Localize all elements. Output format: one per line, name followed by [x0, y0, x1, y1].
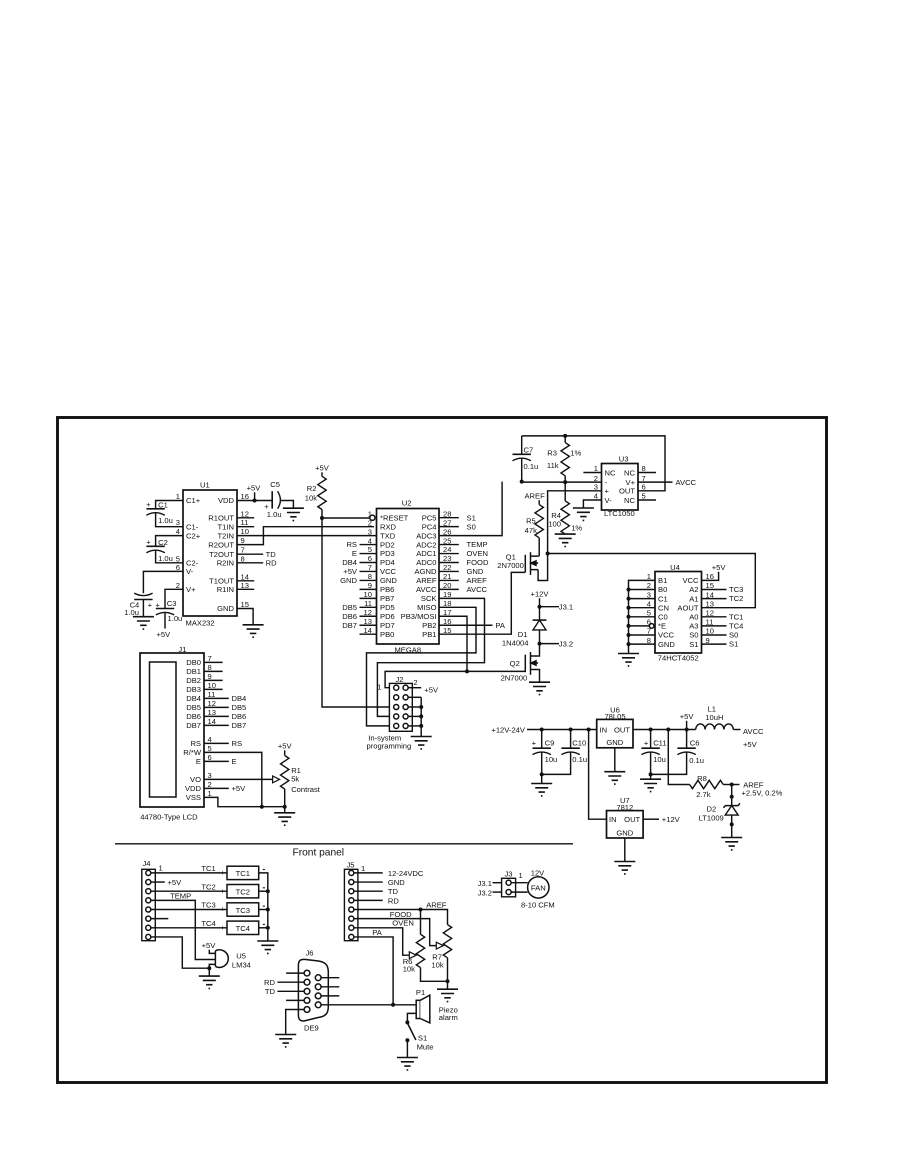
svg-text:ADC2: ADC2 [416, 540, 436, 549]
svg-text:C2: C2 [158, 538, 168, 547]
svg-text:D2: D2 [706, 805, 716, 814]
svg-text:+: + [146, 500, 151, 509]
U7 ground lead [624, 838, 626, 862]
ground at R4 [555, 534, 576, 546]
svg-text:DB7: DB7 [186, 721, 201, 730]
svg-text:3: 3 [176, 518, 180, 527]
wire T2IN to TXD [237, 535, 377, 537]
junction dot C10 [569, 728, 573, 732]
transistor Q2 2N7000 [501, 644, 540, 683]
svg-text:DE9: DE9 [304, 1024, 319, 1033]
svg-text:RD: RD [388, 896, 399, 905]
J1 VO wire to R1 wiper [204, 778, 278, 780]
svg-text:VDD: VDD [185, 784, 202, 793]
svg-text:R2OUT: R2OUT [208, 540, 234, 549]
svg-text:V+: V+ [626, 478, 636, 487]
switch S1 Mute [405, 1013, 433, 1057]
svg-text:2N7000: 2N7000 [497, 561, 524, 570]
svg-text:R/*W: R/*W [183, 748, 202, 757]
svg-text:C2+: C2+ [186, 531, 201, 540]
svg-text:+: + [644, 738, 649, 747]
svg-text:8: 8 [241, 554, 245, 563]
U1 R1OUT stub pin 12 [237, 517, 254, 519]
svg-text:10u: 10u [545, 755, 558, 764]
svg-text:12: 12 [241, 509, 249, 518]
potentiometer R7 10k [431, 925, 451, 982]
voltage regulator U7 7812 [589, 730, 644, 839]
svg-text:+: + [148, 601, 153, 610]
svg-text:MISO: MISO [417, 603, 437, 612]
svg-text:PB2: PB2 [422, 621, 436, 630]
junction dot J3.1 [538, 605, 542, 609]
svg-text:1.0u: 1.0u [124, 608, 139, 617]
svg-text:J3.2: J3.2 [478, 888, 492, 897]
svg-text:VCC: VCC [380, 567, 397, 576]
J1 VDD wire to +5V [204, 784, 246, 793]
wire PB1 to Q1 gate [439, 572, 525, 634]
capacitor C4 1.0u [124, 571, 183, 617]
U2 left wires with labels RS E DB4 +5V GND DB5 DB6 DB7 [340, 540, 376, 630]
svg-text:FAN: FAN [531, 883, 546, 892]
svg-text:TEMP: TEMP [467, 540, 488, 549]
junction dot reset net [320, 516, 324, 520]
resistor R2 10k [305, 464, 330, 519]
svg-text:+5V: +5V [232, 784, 247, 793]
svg-text:IN: IN [609, 815, 617, 824]
svg-text:VSS: VSS [186, 793, 201, 802]
wire SCK to ISP [377, 598, 484, 716]
svg-text:PD5: PD5 [380, 603, 395, 612]
svg-text:TC4: TC4 [201, 919, 215, 928]
svg-text:16: 16 [241, 492, 249, 501]
svg-text:1.0u: 1.0u [158, 554, 173, 563]
thermocouple TC4 box [227, 921, 259, 934]
capacitor C6 0.1u [651, 730, 704, 775]
U3 pin numbers [594, 464, 646, 501]
svg-text:TXD: TXD [380, 531, 396, 540]
U4 left bus wire to ground [629, 580, 656, 653]
ground at J6 [275, 1035, 296, 1047]
svg-text:Q2: Q2 [510, 659, 520, 668]
svg-text:LT1009: LT1009 [699, 814, 724, 823]
J6 TD wire [265, 987, 304, 996]
svg-text:alarm: alarm [439, 1013, 458, 1022]
svg-text:TC1: TC1 [201, 864, 215, 873]
svg-text:7812: 7812 [616, 803, 633, 812]
J1 DB4-DB7 wires with labels [204, 694, 246, 730]
junction dot R6 R7 ground [446, 979, 450, 983]
thermocouple wires TC1-TC4 from J4 [151, 864, 227, 932]
U2 *RESET inversion circle pin 1 [370, 515, 375, 520]
svg-text:DB4: DB4 [232, 694, 247, 703]
J5 OVEN wire pin7 [354, 919, 414, 956]
svg-text:PD4: PD4 [380, 558, 395, 567]
svg-text:J3: J3 [504, 870, 512, 879]
wire MOSI to ISP and Q2 gate [385, 616, 525, 687]
U1 pin numbers [176, 492, 249, 609]
svg-text:74HCT4052: 74HCT4052 [658, 653, 699, 662]
wire R2OUT to RXD [237, 527, 374, 545]
J6 right stubs [321, 978, 339, 996]
svg-text:2: 2 [176, 581, 180, 590]
svg-text:C10: C10 [572, 738, 586, 747]
capacitor C7 0.1u [513, 436, 539, 471]
svg-text:FOOD: FOOD [467, 558, 489, 567]
svg-text:DB4: DB4 [342, 558, 357, 567]
svg-text:C7: C7 [524, 445, 534, 454]
svg-text:AVCC: AVCC [676, 478, 697, 487]
svg-text:AREF: AREF [524, 491, 545, 500]
U1 R2IN wire and RD label [237, 559, 277, 568]
svg-text:+5V: +5V [168, 878, 183, 887]
svg-text:PB3/MOSI: PB3/MOSI [401, 612, 437, 621]
svg-text:S1: S1 [729, 640, 738, 649]
svg-text:J3.1: J3.1 [559, 602, 573, 611]
capacitor C9 10u [532, 730, 558, 775]
svg-text:C3: C3 [167, 599, 177, 608]
svg-text:NC: NC [624, 468, 635, 477]
svg-text:DB1: DB1 [186, 667, 201, 676]
junction dot piezo node [391, 1003, 395, 1007]
U2 right stubs with labels S1 S0 TEMP OVEN FOOD GND AREF AVCC [439, 513, 489, 594]
J4 pin2 +5V wire [151, 878, 182, 887]
svg-text:10k: 10k [403, 965, 415, 974]
svg-text:9: 9 [241, 536, 245, 545]
svg-text:AVCC: AVCC [467, 585, 488, 594]
U1 VDD wire to +5V [237, 484, 272, 501]
svg-text:LTC1050: LTC1050 [604, 509, 635, 518]
U3 pin1 NC stub [583, 472, 601, 474]
J4 pin4 TEMP wire to U5 [151, 892, 216, 960]
svg-text:OUT: OUT [624, 815, 640, 824]
svg-text:1: 1 [377, 682, 381, 691]
svg-text:+5V: +5V [743, 740, 758, 749]
svg-text:TC2: TC2 [201, 882, 215, 891]
svg-text:R8: R8 [697, 774, 707, 783]
ground at Q2 source [529, 682, 550, 694]
wire to J3.1 label [540, 602, 574, 611]
IC U4 74HCT4052 body [655, 563, 702, 662]
svg-text:GND: GND [616, 829, 633, 838]
voltage regulator U6 78L05 [597, 706, 633, 748]
svg-text:U3: U3 [619, 454, 629, 463]
svg-text:ADC1: ADC1 [416, 549, 436, 558]
svg-text:+5V: +5V [247, 484, 262, 493]
svg-text:10k: 10k [305, 493, 317, 502]
svg-text:V-: V- [186, 567, 194, 576]
label In-system programming [367, 734, 412, 751]
J2 pin2 wire to +5V label [408, 686, 439, 695]
svg-text:AREF: AREF [426, 900, 447, 909]
svg-text:DB4: DB4 [186, 694, 201, 703]
junction dot C9 [540, 728, 544, 732]
svg-text:DB6: DB6 [186, 712, 201, 721]
svg-text:T1IN: T1IN [218, 522, 234, 531]
capacitor C3 1.0u [155, 589, 183, 639]
svg-text:DB0: DB0 [186, 658, 201, 667]
svg-text:IN: IN [600, 725, 608, 734]
connector J5 [344, 860, 365, 940]
svg-text:P1: P1 [416, 988, 425, 997]
U4 VCC pin16 wire to +5V [702, 563, 727, 580]
svg-text:+12V: +12V [662, 815, 681, 824]
svg-text:GND: GND [658, 640, 675, 649]
U2 pin numbers [364, 509, 452, 634]
U3 V+ wire to AVCC label [638, 478, 697, 487]
svg-text:12V: 12V [531, 868, 545, 877]
svg-text:0.1u: 0.1u [524, 462, 539, 471]
svg-text:AREF: AREF [467, 576, 488, 585]
J5 AREF wire pin5 [354, 900, 447, 909]
svg-text:C9: C9 [545, 738, 555, 747]
svg-text:PC4: PC4 [422, 522, 437, 531]
svg-text:1.0u: 1.0u [267, 510, 282, 519]
svg-text:TD: TD [265, 987, 276, 996]
U2 left stubs pins 9 10 14 [360, 589, 377, 634]
svg-text:OUT: OUT [614, 725, 630, 734]
svg-text:+: + [220, 905, 225, 914]
svg-text:PD6: PD6 [380, 612, 395, 621]
svg-text:TC3: TC3 [729, 585, 743, 594]
svg-text:C11: C11 [653, 738, 666, 747]
capacitor C5 1.0u [264, 480, 293, 519]
svg-text:TC4: TC4 [236, 924, 250, 933]
junction dot R3 bottom [563, 480, 567, 484]
svg-text:A0: A0 [689, 613, 698, 622]
svg-text:J3.1: J3.1 [478, 879, 492, 888]
svg-text:AVCC: AVCC [416, 585, 437, 594]
svg-text:S0: S0 [729, 631, 738, 640]
svg-text:PD3: PD3 [380, 549, 395, 558]
svg-text:DB7: DB7 [342, 621, 357, 630]
svg-text:10: 10 [241, 527, 249, 536]
J2 ground bus right side [408, 697, 421, 736]
svg-text:Contrast: Contrast [291, 785, 321, 794]
svg-text:1%: 1% [570, 448, 581, 457]
junction dot rail R3 top [563, 434, 567, 438]
ground at U1 GND [243, 625, 264, 637]
svg-text:OVEN: OVEN [392, 919, 414, 928]
junction dot C7 bottom [520, 480, 524, 484]
svg-text:A1: A1 [689, 594, 698, 603]
svg-text:RXD: RXD [380, 522, 397, 531]
junction dot MOSI Q2 gate [465, 669, 469, 673]
svg-text:GND: GND [380, 576, 397, 585]
svg-text:S0: S0 [467, 522, 476, 531]
svg-text:R5: R5 [526, 517, 536, 526]
junction dot Q1 source node [546, 552, 550, 556]
U3 pin8 NC stub [638, 472, 656, 474]
U1 T1OUT stub pin 14 [237, 580, 254, 582]
svg-text:S1: S1 [418, 1034, 427, 1043]
ground at C11 [640, 774, 661, 791]
J1 DB0-DB3 stubs [204, 662, 223, 689]
J4 pin6 stub [151, 918, 168, 920]
thermocouple TC1 box [227, 866, 259, 879]
svg-text:PB1: PB1 [422, 630, 436, 639]
svg-text:11k: 11k [547, 461, 559, 470]
svg-text:GND: GND [606, 738, 623, 747]
svg-text:AGND: AGND [415, 567, 437, 576]
svg-text:C0: C0 [658, 613, 668, 622]
IC U2 MEGA8 body [377, 499, 440, 655]
J6 pin5 ground wire [286, 1010, 304, 1035]
J5 pins 1-4 wires with labels [354, 869, 424, 905]
svg-text:1.0u: 1.0u [168, 614, 183, 623]
piezo alarm P1 [393, 988, 458, 1023]
ground at U3 V- [573, 508, 594, 520]
ground at C4 [133, 617, 154, 629]
junction dot R8 branch [666, 728, 670, 732]
junction dot J3.2 [538, 642, 542, 646]
J1 E wire and label [204, 757, 237, 766]
svg-text:V-: V- [605, 496, 613, 505]
connector J1 44780-type LCD body [140, 645, 204, 822]
resistor R8 2.7k [668, 730, 731, 800]
svg-text:AREF: AREF [416, 576, 437, 585]
svg-text:+: + [146, 538, 151, 547]
svg-text:+5V: +5V [343, 567, 358, 576]
ground at R1 [274, 813, 295, 825]
svg-text:RD: RD [264, 978, 275, 987]
svg-text:12-24VDC: 12-24VDC [388, 869, 424, 878]
svg-text:T2IN: T2IN [218, 531, 234, 540]
svg-text:R3: R3 [547, 448, 557, 457]
svg-text:8-10 CFM: 8-10 CFM [521, 901, 555, 910]
svg-text:GND: GND [388, 878, 405, 887]
svg-text:TEMP: TEMP [170, 892, 191, 901]
junction dot C11 [649, 728, 653, 732]
TC bus junction dots [266, 889, 270, 930]
connector J2 in-system programming header [377, 675, 417, 731]
sensor U5 LM34 [202, 941, 251, 976]
svg-text:15: 15 [241, 600, 249, 609]
ground at C5 [283, 508, 304, 520]
svg-text:C1-: C1- [186, 522, 199, 531]
ground at J2 [411, 737, 432, 749]
thermocouple TC2 box [227, 885, 259, 898]
svg-text:PA: PA [495, 621, 506, 630]
svg-text:NC: NC [624, 496, 635, 505]
junction dot AREF node [730, 783, 734, 787]
U7 OUT wire +12V label [643, 815, 681, 824]
svg-text:*RESET: *RESET [380, 513, 409, 522]
svg-text:DB7: DB7 [232, 721, 247, 730]
svg-text:R2: R2 [307, 484, 317, 493]
ground at U7 [614, 862, 635, 874]
junction dot +5V C6 [685, 728, 689, 732]
svg-text:B1: B1 [658, 576, 667, 585]
svg-text:DB2: DB2 [186, 676, 201, 685]
J1 pin numbers [208, 654, 216, 798]
U3 pin5 NC stub [638, 499, 656, 501]
svg-text:5k: 5k [291, 775, 299, 784]
front panel separator line [115, 843, 573, 845]
resistor R5 47k [525, 505, 544, 538]
inductor L1 10uH [696, 705, 741, 730]
svg-text:GND: GND [467, 567, 484, 576]
diode D1 1N4004 [502, 607, 547, 648]
TC ground bus [259, 873, 268, 941]
junction dot U7 branch [587, 728, 591, 732]
svg-text:Front panel: Front panel [293, 848, 345, 859]
J6 left stubs [286, 973, 304, 1000]
ground at D2 [721, 838, 742, 850]
wire reset net to ISP header [322, 518, 393, 707]
svg-text:AOUT: AOUT [677, 603, 698, 612]
svg-text:13: 13 [706, 599, 714, 608]
U4 right stubs with labels [702, 585, 744, 649]
svg-text:R1IN: R1IN [217, 585, 234, 594]
svg-text:GND: GND [340, 576, 357, 585]
transistor Q1 2N7000 [497, 538, 547, 581]
U6 ground lead [614, 748, 616, 772]
resistor R3 11k 1% [547, 436, 582, 482]
potentiometer R1 5k Contrast [273, 742, 321, 813]
svg-text:TC3: TC3 [201, 901, 215, 910]
svg-text:OVEN: OVEN [467, 549, 489, 558]
power label +12V at D1 [531, 589, 550, 606]
J5 PA wire pin8 [354, 928, 393, 1005]
U4 bus junction dots [627, 588, 631, 647]
svg-text:TC1: TC1 [236, 869, 250, 878]
svg-text:+: + [605, 487, 610, 496]
svg-text:NC: NC [605, 468, 616, 477]
svg-text:2.7k: 2.7k [696, 790, 711, 799]
J1 R/*W wire to ground bus [204, 752, 262, 806]
svg-text:VDD: VDD [218, 496, 235, 505]
resistor R4 100 1% [548, 482, 582, 534]
svg-text:AVCC: AVCC [743, 727, 764, 736]
svg-text:PD2: PD2 [380, 540, 395, 549]
svg-text:1%: 1% [571, 524, 582, 533]
svg-text:PB7: PB7 [380, 594, 394, 603]
node AREF label above R5 [524, 491, 545, 504]
J4 pin8 ground wire [151, 937, 209, 968]
svg-text:J3.2: J3.2 [559, 639, 573, 648]
svg-text:+: + [220, 868, 225, 877]
svg-text:+5V: +5V [424, 686, 439, 695]
svg-text:PA: PA [372, 928, 383, 937]
svg-text:+5V: +5V [680, 712, 695, 721]
svg-text:TC1: TC1 [729, 612, 743, 621]
U3 plus input wire to Q1 drain node [548, 491, 602, 554]
J6 pin9 wire to piezo [321, 1004, 393, 1006]
svg-text:S0: S0 [689, 631, 698, 640]
wire to J3.2 label [540, 639, 574, 648]
svg-text:RS: RS [190, 739, 201, 748]
svg-text:1: 1 [519, 871, 523, 880]
svg-text:VO: VO [190, 775, 201, 784]
fan motor 12V 8-10 CFM [511, 868, 555, 909]
J6 RD wire [264, 978, 304, 987]
svg-text:J2: J2 [396, 675, 404, 684]
svg-text:J5: J5 [346, 860, 354, 869]
J1 VSS wire to ground bus [204, 797, 285, 806]
svg-text:B0: B0 [658, 585, 667, 594]
feedback rail wire C7 R3 to OUT [521, 458, 523, 481]
svg-text:TC3: TC3 [236, 906, 250, 915]
thermocouple TC3 box [227, 903, 259, 916]
svg-text:4: 4 [176, 527, 180, 536]
wire R2 to *RESET pin [322, 517, 370, 519]
junction dot C11 C6 ground [649, 772, 653, 776]
svg-text:C1: C1 [158, 500, 168, 509]
svg-text:VCC: VCC [682, 576, 699, 585]
svg-text:SCK: SCK [421, 594, 437, 603]
svg-text:VCC: VCC [658, 631, 675, 640]
connector J3 fan header [478, 870, 523, 898]
